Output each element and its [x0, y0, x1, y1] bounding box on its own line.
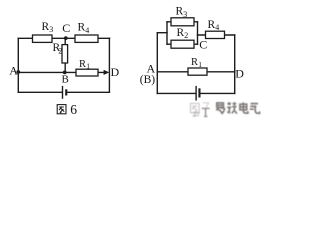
wire left bracket vertical [166, 22, 168, 44]
svg-text:4: 4 [215, 23, 219, 32]
svg-text:(B): (B) [140, 74, 156, 86]
node C dot left [64, 36, 68, 40]
resistor R1 right [188, 68, 207, 75]
wire R2 vertical C to B [64, 38, 66, 72]
wire R2 branch [167, 43, 198, 45]
wire left circuit middle A to D row [18, 71, 104, 73]
svg-text:1: 1 [86, 62, 90, 71]
wire right circuit right edge [234, 35, 236, 93]
watermark char zhu [227, 102, 237, 113]
svg-text:B: B [62, 74, 69, 86]
watermark char dian [240, 102, 248, 113]
watermark yi zhu dian qi (grey CJK drawn strokes) [216, 102, 259, 114]
wire left circuit top [18, 37, 109, 39]
wire right circuit bottom left of battery [157, 92, 195, 94]
wire left circuit right edge [108, 38, 110, 92]
watermark char qi [250, 104, 260, 114]
resistor R4 right [206, 31, 225, 38]
wire right circuit bottom right of battery [201, 92, 235, 94]
wire right bracket vertical [197, 22, 199, 44]
svg-text:4: 4 [85, 26, 89, 35]
resistor R3 left [33, 35, 53, 42]
svg-text:R: R [177, 27, 185, 39]
resistor R1 left [76, 69, 98, 76]
wire right circuit middle row [157, 71, 234, 73]
svg-text:R: R [79, 59, 86, 70]
battery left: long plate [62, 86, 64, 99]
wire R3 branch [167, 21, 198, 23]
svg-text:C: C [199, 37, 207, 51]
wire left circuit bottom right of battery [67, 91, 109, 93]
svg-text:3: 3 [183, 10, 187, 19]
wire left circuit bottom left of battery [18, 91, 62, 93]
wire R4 row [198, 34, 235, 36]
svg-text:C: C [62, 21, 70, 35]
svg-text:2: 2 [184, 31, 188, 40]
svg-text:D: D [235, 66, 244, 80]
svg-text:D: D [111, 65, 120, 79]
svg-text:2: 2 [58, 46, 62, 55]
battery right: long plate [195, 86, 197, 101]
svg-text:1: 1 [198, 60, 202, 69]
wire right circuit left edge [156, 33, 158, 94]
svg-text:3: 3 [49, 25, 53, 34]
resistor R4 left [75, 35, 98, 42]
resistor R2 left (vertical) [62, 45, 68, 63]
watermark char yi [216, 103, 224, 114]
wire left circuit left edge [17, 38, 19, 92]
battery left: short thick plate [65, 89, 67, 95]
ghost faded figure-7 label [191, 103, 209, 113]
node A dot left [16, 70, 20, 74]
resistor R3 right [171, 18, 194, 26]
svg-text:R: R [176, 6, 184, 18]
svg-text:R: R [78, 22, 86, 34]
arrow into D left [104, 70, 110, 75]
battery right: short thick plate [198, 88, 200, 97]
svg-text:R: R [42, 21, 50, 33]
svg-text:6: 6 [70, 102, 77, 117]
node B dot left [63, 71, 67, 75]
ghost scribble lower left [193, 111, 200, 117]
svg-text:R: R [208, 19, 216, 31]
label figure 6 : CJK tu glyph drawn [57, 105, 66, 114]
wire stub to left bracket [157, 32, 167, 34]
svg-text:A: A [9, 63, 18, 77]
resistor R2 right [171, 40, 194, 48]
svg-text:R: R [191, 57, 198, 68]
ghost darker small mark [202, 108, 210, 116]
